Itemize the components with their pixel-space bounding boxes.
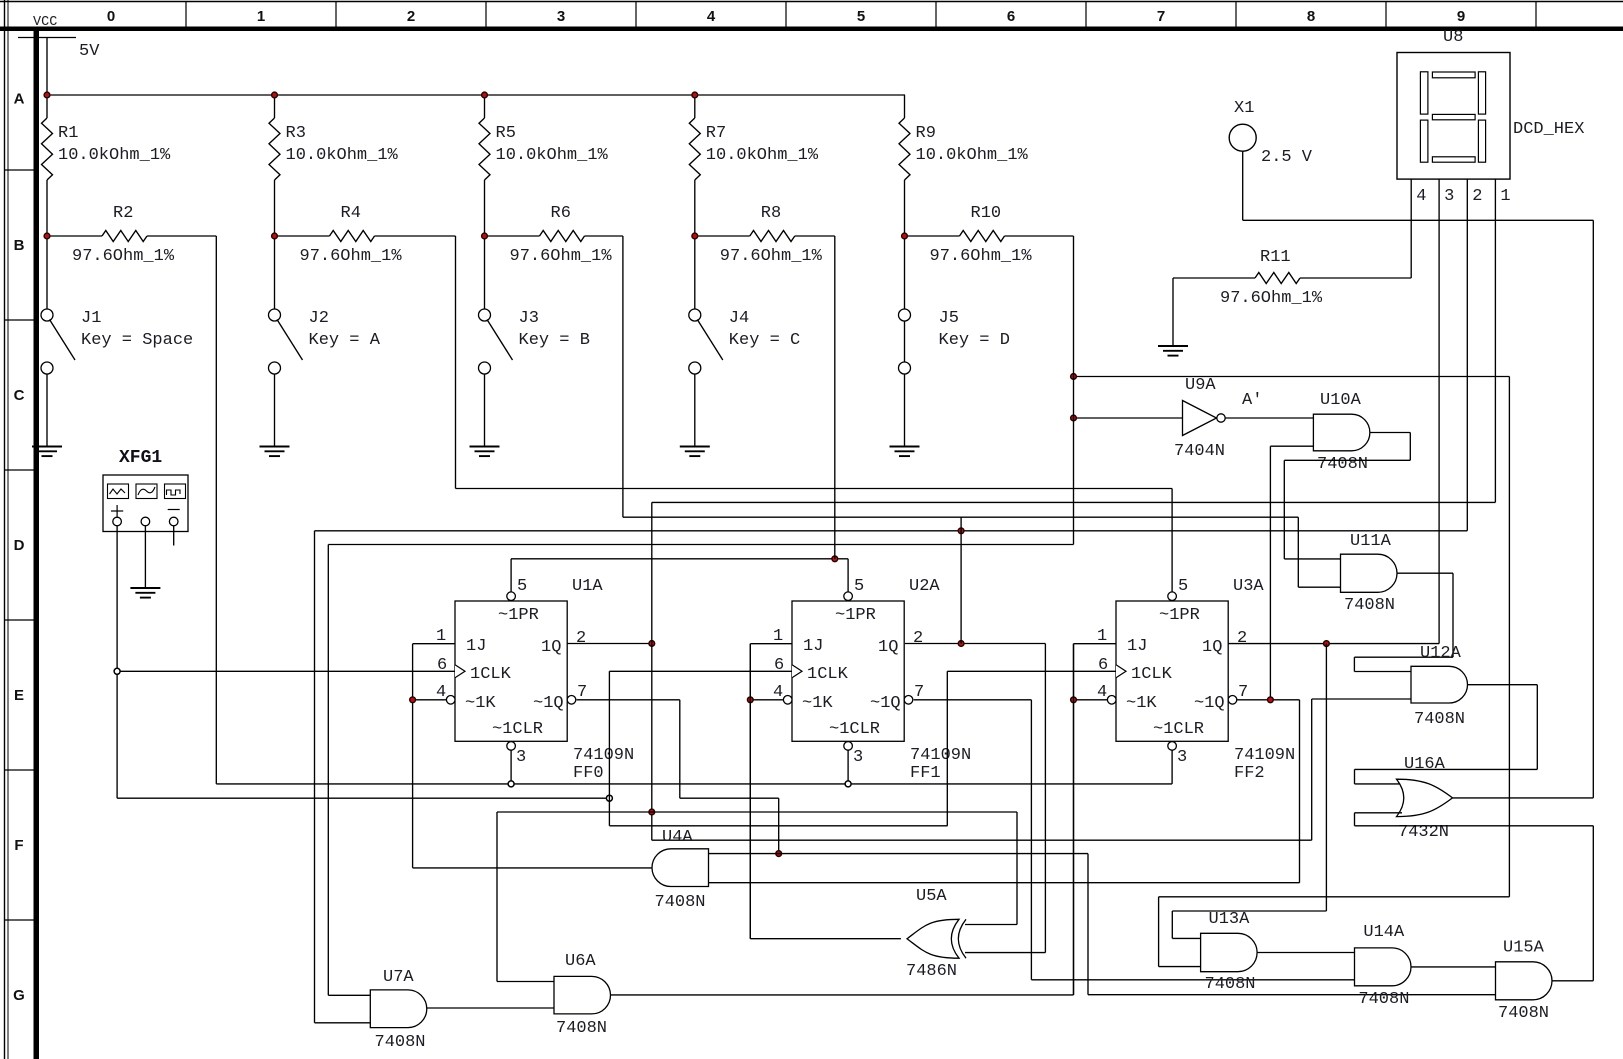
- svg-text:U11A: U11A: [1350, 532, 1392, 551]
- svg-text:R6: R6: [551, 204, 571, 223]
- svg-text:FF1: FF1: [910, 764, 941, 783]
- svg-text:97.6Ohm_1%: 97.6Ohm_1%: [72, 247, 175, 266]
- svg-text:J3: J3: [519, 309, 539, 328]
- svg-text:A: A: [14, 91, 25, 108]
- svg-text:U1A: U1A: [572, 577, 603, 596]
- svg-text:R3: R3: [286, 124, 306, 143]
- svg-text:3: 3: [1444, 187, 1454, 206]
- svg-text:74109N: 74109N: [910, 746, 971, 765]
- svg-text:~1CLR: ~1CLR: [492, 720, 543, 739]
- svg-text:3: 3: [516, 748, 526, 767]
- svg-text:~1K: ~1K: [802, 694, 833, 713]
- svg-text:U14A: U14A: [1363, 923, 1405, 942]
- svg-text:FF2: FF2: [1234, 764, 1265, 783]
- svg-text:R4: R4: [341, 204, 361, 223]
- svg-text:C: C: [14, 387, 25, 404]
- svg-text:97.6Ohm_1%: 97.6Ohm_1%: [930, 247, 1033, 266]
- svg-text:U5A: U5A: [916, 887, 947, 906]
- svg-text:5: 5: [857, 8, 865, 25]
- svg-text:~1CLR: ~1CLR: [1153, 720, 1204, 739]
- svg-text:~1K: ~1K: [1126, 694, 1157, 713]
- svg-text:X1: X1: [1234, 99, 1254, 118]
- svg-text:9: 9: [1457, 8, 1465, 25]
- svg-text:R5: R5: [496, 124, 516, 143]
- svg-text:DCD_HEX: DCD_HEX: [1513, 120, 1584, 139]
- svg-text:A': A': [1242, 391, 1262, 410]
- svg-text:FF0: FF0: [573, 764, 604, 783]
- svg-text:7408N: 7408N: [655, 893, 706, 912]
- svg-text:R2: R2: [113, 204, 133, 223]
- svg-text:1CLK: 1CLK: [1131, 665, 1173, 684]
- svg-text:2: 2: [407, 8, 415, 25]
- svg-text:1Q: 1Q: [878, 638, 898, 657]
- svg-text:7408N: 7408N: [1317, 455, 1368, 474]
- svg-text:Key = C: Key = C: [729, 331, 800, 350]
- svg-text:Key = A: Key = A: [309, 331, 381, 350]
- svg-text:U13A: U13A: [1209, 910, 1251, 929]
- svg-text:97.6Ohm_1%: 97.6Ohm_1%: [510, 247, 613, 266]
- svg-text:7408N: 7408N: [1414, 710, 1465, 729]
- svg-text:7408N: 7408N: [1498, 1004, 1549, 1023]
- svg-text:6: 6: [774, 656, 784, 675]
- svg-text:10.0kOhm_1%: 10.0kOhm_1%: [496, 146, 609, 165]
- svg-text:7408N: 7408N: [375, 1033, 426, 1052]
- svg-text:10.0kOhm_1%: 10.0kOhm_1%: [706, 146, 819, 165]
- svg-text:R8: R8: [761, 204, 781, 223]
- svg-text:~1K: ~1K: [465, 694, 496, 713]
- svg-text:~1CLR: ~1CLR: [829, 720, 880, 739]
- svg-text:XFG1: XFG1: [119, 448, 162, 468]
- svg-text:U7A: U7A: [383, 968, 414, 987]
- svg-text:2: 2: [576, 629, 586, 648]
- svg-text:1J: 1J: [803, 637, 823, 656]
- svg-text:74109N: 74109N: [573, 746, 634, 765]
- svg-text:U16A: U16A: [1404, 755, 1446, 774]
- svg-text:1CLK: 1CLK: [470, 665, 512, 684]
- svg-text:2: 2: [1237, 629, 1247, 648]
- svg-text:E: E: [14, 687, 24, 704]
- svg-text:2: 2: [1472, 187, 1482, 206]
- svg-text:U4A: U4A: [662, 828, 693, 847]
- svg-text:6: 6: [1098, 656, 1108, 675]
- svg-text:1: 1: [1500, 187, 1510, 206]
- svg-text:R1: R1: [58, 124, 78, 143]
- svg-text:4: 4: [707, 8, 716, 25]
- svg-text:1Q: 1Q: [1202, 638, 1222, 657]
- svg-text:U3A: U3A: [1233, 577, 1264, 596]
- svg-text:7404N: 7404N: [1174, 442, 1225, 461]
- svg-text:J1: J1: [81, 309, 101, 328]
- svg-text:U6A: U6A: [565, 952, 596, 971]
- svg-text:VCC: VCC: [33, 15, 57, 30]
- svg-text:5: 5: [517, 577, 527, 596]
- svg-text:7486N: 7486N: [906, 962, 957, 981]
- svg-text:0: 0: [107, 8, 115, 25]
- svg-text:10.0kOhm_1%: 10.0kOhm_1%: [916, 146, 1029, 165]
- svg-text:97.6Ohm_1%: 97.6Ohm_1%: [1220, 289, 1323, 308]
- svg-text:3: 3: [1177, 748, 1187, 767]
- svg-text:U8: U8: [1443, 28, 1463, 47]
- svg-text:5: 5: [1178, 577, 1188, 596]
- svg-text:7408N: 7408N: [1358, 990, 1409, 1009]
- svg-text:7: 7: [1157, 8, 1165, 25]
- svg-text:6: 6: [1007, 8, 1015, 25]
- svg-text:Key = B: Key = B: [519, 331, 590, 350]
- svg-text:F: F: [14, 837, 23, 854]
- svg-text:~1PR: ~1PR: [498, 606, 539, 625]
- svg-text:10.0kOhm_1%: 10.0kOhm_1%: [58, 146, 171, 165]
- svg-text:3: 3: [557, 8, 565, 25]
- svg-text:1J: 1J: [466, 637, 486, 656]
- svg-text:~1Q: ~1Q: [1194, 694, 1225, 713]
- svg-text:U15A: U15A: [1503, 939, 1545, 958]
- svg-text:74109N: 74109N: [1234, 746, 1295, 765]
- svg-text:8: 8: [1307, 8, 1315, 25]
- svg-text:1Q: 1Q: [541, 638, 561, 657]
- svg-text:2: 2: [913, 629, 923, 648]
- svg-text:G: G: [13, 987, 25, 1004]
- svg-text:7408N: 7408N: [1344, 596, 1395, 615]
- svg-text:D: D: [14, 537, 25, 554]
- svg-text:7408N: 7408N: [556, 1019, 607, 1038]
- svg-text:5V: 5V: [79, 42, 100, 61]
- svg-text:U9A: U9A: [1185, 376, 1216, 395]
- svg-text:~1PR: ~1PR: [1159, 606, 1200, 625]
- svg-text:~1PR: ~1PR: [835, 606, 876, 625]
- svg-text:R9: R9: [916, 124, 936, 143]
- svg-text:J2: J2: [309, 309, 329, 328]
- svg-text:6: 6: [437, 656, 447, 675]
- svg-text:~1Q: ~1Q: [533, 694, 564, 713]
- svg-text:1CLK: 1CLK: [807, 665, 849, 684]
- svg-text:J4: J4: [729, 309, 749, 328]
- svg-text:10.0kOhm_1%: 10.0kOhm_1%: [286, 146, 399, 165]
- svg-text:4: 4: [1416, 187, 1426, 206]
- svg-text:Key = D: Key = D: [939, 331, 1010, 350]
- svg-text:U12A: U12A: [1420, 644, 1462, 663]
- svg-text:97.6Ohm_1%: 97.6Ohm_1%: [720, 247, 823, 266]
- svg-text:3: 3: [853, 748, 863, 767]
- svg-text:~1Q: ~1Q: [870, 694, 901, 713]
- svg-text:Key = Space: Key = Space: [81, 331, 193, 350]
- svg-text:U2A: U2A: [909, 577, 940, 596]
- svg-text:5: 5: [854, 577, 864, 596]
- svg-text:2.5 V: 2.5 V: [1261, 148, 1313, 167]
- svg-text:R10: R10: [971, 204, 1002, 223]
- svg-text:R11: R11: [1260, 248, 1291, 267]
- svg-text:7408N: 7408N: [1205, 975, 1256, 994]
- svg-text:R7: R7: [706, 124, 726, 143]
- svg-text:J5: J5: [939, 309, 959, 328]
- svg-text:1: 1: [257, 8, 265, 25]
- svg-text:97.6Ohm_1%: 97.6Ohm_1%: [300, 247, 403, 266]
- svg-text:B: B: [14, 237, 25, 254]
- svg-text:1J: 1J: [1127, 637, 1147, 656]
- svg-text:U10A: U10A: [1320, 391, 1362, 410]
